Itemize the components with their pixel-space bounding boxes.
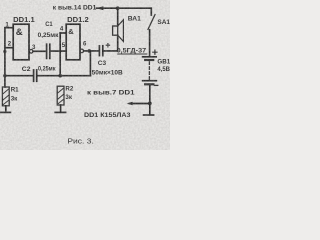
BA1 type underline (118, 53, 147, 55)
battery plus sign (153, 50, 157, 54)
node bottom junction (148, 102, 152, 106)
wire C2 to riser (37, 75, 90, 77)
wire top rail (97, 8, 152, 15)
wire ground branch (129, 103, 149, 105)
wire C1 to pin5 (51, 50, 67, 52)
node bus-C2 junction (3, 74, 6, 77)
DD1.1 output inversion bubble (29, 50, 33, 54)
wire DD1.2 output (84, 50, 99, 52)
node output 6 junction (88, 49, 92, 53)
R1 common bar (1, 111, 11, 113)
wire DD1.1 output to C1 (33, 50, 46, 52)
wire pin2 (5, 47, 13, 49)
wire pin1 (5, 27, 13, 29)
wire R2 bottom lead (60, 105, 62, 112)
wire battery minus lead (149, 85, 151, 103)
R2 common bar (55, 111, 65, 113)
ground arrow (127, 102, 133, 105)
wire riser to output 6 (89, 51, 91, 76)
gate DD1.2 body (66, 24, 80, 60)
power rail arrow (96, 6, 103, 10)
op-gate DD1.1 body (13, 24, 29, 60)
loudspeaker BA1 (117, 8, 119, 26)
R2 hatch (58, 88, 63, 103)
wire R1 bottom lead (5, 106, 7, 112)
wire battery lead to common bar (149, 104, 151, 115)
wire C2 feedback row (5, 75, 33, 77)
battery minus sign (154, 84, 157, 86)
wire pin4 (60, 32, 66, 34)
battery GB1 (143, 56, 157, 58)
capacitor C3 (electrolytic) (99, 46, 102, 56)
capacitor C1 (47, 44, 50, 58)
node R2 top junction (58, 74, 62, 78)
resistor R1 (2, 87, 9, 106)
wire pins 4-5 tie down to R2 node (59, 33, 61, 76)
DD1.2 output inversion bubble (80, 49, 84, 53)
wire input bus DD1.1 (pins 1,2 tied) (4, 28, 6, 87)
battery common bar (144, 114, 154, 116)
C3 plus sign (106, 44, 109, 47)
wire SA1 to battery (149, 30, 151, 56)
junction dot on bus (3, 50, 6, 53)
wire C3 to speaker lead (104, 50, 118, 52)
capacitor C2 (34, 70, 37, 81)
resistor R2 (57, 86, 64, 105)
node speaker-rail junction (116, 6, 120, 10)
switch SA1 (148, 15, 155, 30)
R1 hatch (3, 89, 8, 104)
